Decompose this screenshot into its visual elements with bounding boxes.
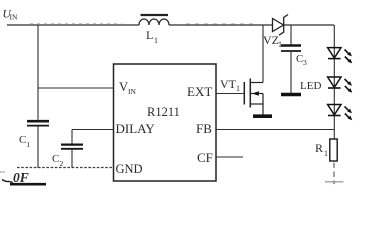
svg-text:EXT: EXT xyxy=(187,84,212,99)
resistor R1 xyxy=(315,139,337,161)
svg-text:IN: IN xyxy=(128,87,136,96)
VT1 channel bar xyxy=(249,79,251,108)
wire LED column vertical xyxy=(333,25,335,139)
wire VIN vertical from rail xyxy=(37,25,39,120)
LED D2 xyxy=(328,77,353,93)
svg-text:C: C xyxy=(19,134,26,146)
capacitor C1 xyxy=(19,121,49,149)
wire ground rail bottom left xyxy=(17,167,114,169)
svg-text:3: 3 xyxy=(303,58,307,67)
svg-text:C: C xyxy=(52,153,59,165)
VT1 body arrow xyxy=(250,93,263,95)
svg-text:LED: LED xyxy=(300,80,321,92)
svg-text:1: 1 xyxy=(324,149,328,158)
svg-text:FB: FB xyxy=(196,121,212,136)
svg-text:CF: CF xyxy=(197,150,213,165)
VT1 source lead xyxy=(250,103,263,105)
svg-text:1: 1 xyxy=(154,36,158,45)
wire C2 top vertical xyxy=(71,130,73,144)
svg-text:DILAY: DILAY xyxy=(116,121,156,136)
wire scan-noise dashes above rail right xyxy=(186,23,258,25)
wire top rail left segment xyxy=(7,24,139,26)
wire source down xyxy=(262,94,264,115)
inductor L1 xyxy=(139,15,169,45)
svg-text:1: 1 xyxy=(236,84,240,93)
svg-text:0F: 0F xyxy=(13,170,29,185)
ground below VT1 source xyxy=(253,114,272,118)
wire FB pin to LED/R1 junction xyxy=(216,129,334,131)
wire DILAY pin horizontal xyxy=(72,129,114,131)
svg-text:2: 2 xyxy=(60,159,64,168)
svg-text:R1211: R1211 xyxy=(147,105,180,119)
wire CF pin stub xyxy=(216,156,243,158)
svg-text:V: V xyxy=(119,80,128,94)
wire C1 bottom vertical xyxy=(37,126,39,168)
wire C3 top vertical xyxy=(290,25,292,45)
VT1 gate bar xyxy=(243,82,245,105)
node UIN label xyxy=(3,9,18,22)
wire drain vertical from rail xyxy=(262,25,264,83)
svg-text:L: L xyxy=(146,28,153,42)
capacitor C3 xyxy=(281,46,307,68)
ground dash below R1 xyxy=(325,181,344,183)
IC U1 R1211 body xyxy=(114,64,217,181)
scan artifact bottom-left scribble xyxy=(0,170,46,185)
transistor VT1 MOSFET xyxy=(220,77,263,115)
VT1 drain lead xyxy=(250,82,263,84)
ground below C3 xyxy=(281,93,301,97)
wire dashed below R1 xyxy=(333,163,335,185)
svg-text:VT: VT xyxy=(220,77,237,91)
wire top rail right segment xyxy=(284,24,335,26)
svg-text:R: R xyxy=(315,141,323,155)
wire EXT pin to gate xyxy=(216,93,244,95)
svg-text:1: 1 xyxy=(27,140,31,149)
svg-text:VZ: VZ xyxy=(263,33,279,47)
wire VIN pin horizontal xyxy=(38,87,114,89)
wire top rail mid segment xyxy=(169,24,273,26)
LED D3 xyxy=(328,105,353,121)
wire scan-noise dashes above rail xyxy=(30,23,122,25)
wire C3 bottom vertical xyxy=(290,52,292,93)
diode VZ1 (zener) xyxy=(263,15,288,50)
svg-text:IN: IN xyxy=(10,13,18,22)
capacitor C2 xyxy=(52,145,83,168)
svg-text:GND: GND xyxy=(116,162,143,176)
LED D1 xyxy=(328,48,353,64)
wire C2 bottom vertical xyxy=(71,150,73,168)
